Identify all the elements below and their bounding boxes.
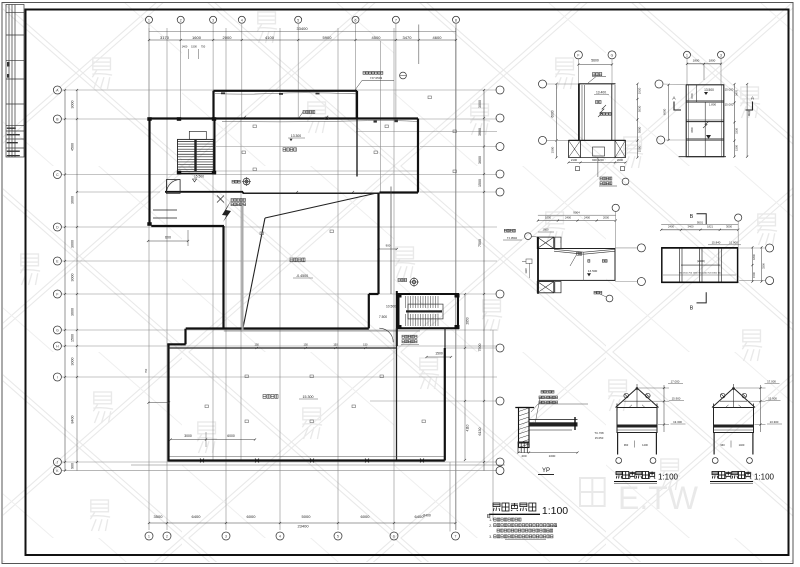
- svg-text:1500: 1500: [478, 179, 482, 187]
- svg-text:750: 750: [144, 368, 148, 373]
- svg-text:1:100: 1:100: [754, 473, 775, 482]
- svg-text:2: 2: [166, 535, 168, 539]
- svg-text:3300: 3300: [761, 263, 765, 269]
- d2 top stems: [686, 59, 688, 86]
- svg-text:1800: 1800: [693, 58, 700, 62]
- svg-text:1500: 1500: [435, 352, 443, 356]
- svg-text:4: 4: [279, 535, 281, 539]
- svg-text:3600: 3600: [71, 308, 75, 316]
- d2 top dim: [687, 63, 721, 65]
- svg-text:23400: 23400: [297, 523, 309, 528]
- wall: step at y=328.7: [186, 327, 369, 329]
- right axis circles: [496, 86, 504, 475]
- lower wing bottom wall: [169, 459, 445, 461]
- svg-text:6: 6: [393, 535, 395, 539]
- wing inner line y=456.5: [170, 456, 445, 458]
- svg-text:1400: 1400: [739, 443, 745, 447]
- svg-text:11.900: 11.900: [729, 241, 738, 245]
- leader text below right stair: [402, 335, 417, 338]
- svg-text:1500: 1500: [734, 145, 738, 151]
- wall: lower wing west x=168.5: [167, 344, 169, 461]
- line below trapezoid bottom: [224, 330, 420, 332]
- grid vertical lines: [149, 24, 456, 530]
- svg-text:1400: 1400: [182, 45, 188, 49]
- right dimension chain: [478, 89, 485, 471]
- svg-text:2400: 2400: [584, 216, 590, 220]
- svg-text:7.500: 7.500: [379, 315, 387, 319]
- right stair block walls: [399, 294, 459, 328]
- svg-text:6400: 6400: [192, 514, 202, 519]
- svg-text:15.050: 15.050: [595, 436, 604, 440]
- svg-text:13.300: 13.300: [770, 420, 779, 424]
- d3 left leader: [504, 229, 515, 232]
- d3 body: [538, 249, 615, 281]
- svg-text:900: 900: [71, 463, 75, 469]
- svg-text:3030: 3030: [638, 105, 642, 112]
- svg-text:YP: YP: [542, 468, 550, 474]
- svg-text:900 2200: 900 2200: [592, 158, 604, 162]
- svg-text:6000: 6000: [663, 108, 667, 115]
- right stair middle stringer: [406, 310, 442, 312]
- svg-text:6000: 6000: [551, 110, 555, 117]
- wall jog y=294: [369, 293, 379, 295]
- svg-text:1800: 1800: [752, 254, 756, 260]
- right stair corner columns: [397, 294, 460, 330]
- svg-text:6000: 6000: [247, 514, 257, 519]
- d3 top right circle: [612, 204, 619, 211]
- svg-text:8: 8: [455, 18, 457, 22]
- svg-text:960: 960: [624, 443, 629, 447]
- svg-text:2,3/54: 2,3/54: [549, 524, 558, 528]
- svg-text:4110: 4110: [466, 424, 470, 431]
- svg-text:600: 600: [165, 236, 171, 240]
- svg-text:G: G: [56, 329, 59, 333]
- exhibition hall slanted walls: [243, 218, 265, 328]
- svg-text:3000: 3000: [478, 100, 482, 108]
- svg-text:15.840: 15.840: [712, 241, 721, 245]
- svg-text:1000: 1000: [549, 454, 556, 458]
- title block table: [6, 5, 24, 158]
- lower wing texts: [263, 395, 278, 399]
- svg-text:7: 7: [455, 535, 457, 539]
- svg-text:2.: 2.: [489, 524, 492, 528]
- svg-text:3000: 3000: [638, 126, 642, 133]
- window marks on bottom wall: [200, 459, 424, 463]
- svg-text:2850: 2850: [466, 317, 470, 324]
- wall: step y=344.3: [167, 343, 185, 345]
- svg-text:J: J: [57, 461, 59, 465]
- d4 right dim chains: [751, 247, 753, 281]
- top dimension chain: [148, 25, 457, 65]
- svg-text:3470: 3470: [734, 90, 738, 96]
- d1 bottom dims: [569, 162, 626, 164]
- svg-text:3400: 3400: [688, 225, 694, 229]
- ticks on wing bottom wall: [296, 191, 298, 193]
- roof wavy line below edge: [215, 93, 356, 94]
- svg-text:1500: 1500: [191, 45, 197, 49]
- wall: upper roof top edge: [214, 90, 358, 92]
- gable A-A label: [616, 472, 622, 479]
- window X mark: [217, 196, 224, 203]
- svg-text:1500: 1500: [691, 93, 694, 99]
- svg-text:1800: 1800: [709, 58, 716, 62]
- svg-text:3600: 3600: [71, 196, 75, 204]
- yp wall hatch: [519, 408, 530, 448]
- right stair treads: [406, 296, 444, 326]
- wall: step x=185.5: [184, 329, 186, 345]
- svg-text:15.000: 15.000: [725, 88, 734, 92]
- left dimension chain: [64, 89, 75, 472]
- drain in upper wing: [243, 178, 250, 185]
- svg-text:17.000: 17.000: [671, 380, 680, 384]
- svg-text:1500: 1500: [752, 272, 756, 278]
- svg-text:7: 7: [395, 18, 397, 22]
- svg-text:3000: 3000: [71, 358, 75, 366]
- row 348 right extension: [445, 347, 495, 349]
- svg-text:1.: 1.: [489, 518, 492, 522]
- svg-text:TC.708: TC.708: [594, 431, 604, 435]
- svg-text:1: 1: [686, 53, 688, 57]
- second left dim chain: [76, 89, 78, 471]
- svg-text:15.500: 15.500: [194, 175, 204, 179]
- d3 bottom-left X square: [537, 282, 554, 293]
- scattered interior marks lower wing: [205, 375, 425, 423]
- svg-text:3000: 3000: [184, 434, 192, 438]
- hall text 展厅上空: [290, 258, 305, 262]
- svg-text:150: 150: [304, 343, 309, 347]
- d1 top dim: [578, 64, 612, 66]
- d2 top axis circles: [684, 51, 691, 58]
- ticks above long wall: [244, 116, 246, 118]
- svg-text:3: 3: [225, 535, 227, 539]
- svg-text:3470: 3470: [403, 35, 413, 40]
- svg-text:1920: 1920: [638, 87, 642, 94]
- yp wall cap: [515, 407, 534, 409]
- title block text marks: [7, 62, 20, 156]
- yp leader notes: [541, 391, 554, 394]
- svg-text:7500: 7500: [478, 344, 482, 352]
- d3 roof V lines: [554, 249, 615, 254]
- drawing arrows (drainage): [222, 199, 232, 222]
- d2 right dim chains: [734, 84, 736, 157]
- svg-text:1000: 1000: [545, 216, 551, 220]
- svg-text:4100: 4100: [265, 35, 275, 40]
- yp wall feet: [518, 442, 530, 444]
- svg-text:3330: 3330: [734, 128, 738, 134]
- d1 label R602: [593, 73, 602, 76]
- svg-text:1500: 1500: [638, 145, 642, 152]
- bottom axis circles: [145, 532, 460, 540]
- upper wing interior marks: [242, 96, 456, 235]
- svg-text:10.500: 10.500: [386, 305, 396, 309]
- svg-text:1: 1: [148, 18, 150, 22]
- svg-text:-0.4500: -0.4500: [296, 274, 308, 278]
- svg-text:2: 2: [180, 18, 182, 22]
- svg-text:15.900: 15.900: [768, 397, 777, 401]
- wall: upper wing long edge: [150, 117, 419, 119]
- grey axis overlay line: [242, 205, 244, 330]
- wall connect x=445: [444, 328, 446, 348]
- d2 body: [679, 85, 726, 157]
- svg-text:750 1510 750 1080 750 1440 720: 750 1510 750 1080 750 1440 720 1800 750: [679, 272, 722, 274]
- svg-text:3: 3: [720, 53, 722, 57]
- svg-text:3000: 3000: [71, 274, 75, 282]
- svg-text:B: B: [690, 214, 694, 220]
- top axis circles: [146, 16, 460, 23]
- svg-text:750: 750: [201, 45, 206, 49]
- stair lower landing walls: [153, 180, 180, 218]
- svg-text:5000: 5000: [302, 514, 312, 519]
- d1 body: [578, 84, 615, 141]
- svg-text:F: F: [577, 53, 579, 57]
- svg-text:3000: 3000: [726, 225, 732, 229]
- svg-text:3600: 3600: [478, 156, 482, 164]
- dim 600 near step: [148, 240, 188, 242]
- d4 top-right circle: [735, 214, 742, 221]
- svg-text:17.000: 17.000: [767, 380, 776, 384]
- svg-text:6000: 6000: [227, 434, 235, 438]
- svg-text:2100: 2100: [571, 158, 578, 162]
- d1 axis circles: [574, 51, 582, 59]
- gable B-B label: [712, 472, 718, 479]
- svg-text:1600: 1600: [192, 35, 202, 40]
- d3 top dims: [538, 220, 616, 222]
- svg-text:5900: 5900: [323, 35, 333, 40]
- small dim at wing west: [149, 402, 170, 404]
- svg-text:I: I: [57, 376, 58, 380]
- svg-text:1: 1: [148, 535, 150, 539]
- d1 right dims: [637, 84, 639, 158]
- svg-text:3600: 3600: [478, 128, 482, 136]
- wall: mid step y=226: [151, 225, 224, 227]
- svg-text:4600: 4600: [433, 35, 443, 40]
- svg-text:15.300: 15.300: [303, 395, 314, 399]
- stair block upper-left: walls: [148, 119, 150, 226]
- svg-text:13.500: 13.500: [588, 269, 598, 273]
- yp dims below: [519, 452, 578, 454]
- dim chain x=465 right of lower wing: [464, 293, 470, 461]
- svg-text:5: 5: [297, 18, 299, 22]
- svg-text:4: 4: [241, 18, 243, 22]
- lower wing east wall: [444, 348, 446, 461]
- leader for roof drain note: [299, 112, 303, 118]
- svg-text:3000: 3000: [71, 101, 75, 109]
- svg-text:33400: 33400: [296, 26, 308, 31]
- ticks on lower wing top wall: [255, 343, 368, 349]
- left axis circles: [53, 86, 61, 475]
- svg-text:15.000: 15.000: [725, 103, 734, 107]
- interior dims lower wing: [171, 439, 255, 441]
- d1 footer: [569, 140, 626, 157]
- svg-text:5600: 5600: [591, 59, 599, 63]
- svg-text:G: G: [611, 53, 614, 57]
- d2 left dim chain: [668, 85, 670, 140]
- wall: x=396.5 interior vertical: [396, 328, 398, 461]
- leader at roof top right: [355, 81, 394, 91]
- d1 left dims: [556, 84, 558, 158]
- svg-text:3000: 3000: [71, 240, 75, 248]
- thin line under long wall: [222, 121, 418, 122]
- wall: trapezoid left x=223.5: [222, 226, 224, 329]
- svg-text:2000: 2000: [617, 158, 624, 162]
- svg-text:(2400): (2400): [697, 259, 705, 263]
- d2 left circles: [655, 80, 663, 88]
- svg-text:13.300: 13.300: [291, 134, 301, 138]
- svg-text:2000: 2000: [603, 216, 609, 220]
- svg-text:1500: 1500: [551, 146, 555, 153]
- bottom dimension chain: [148, 514, 457, 528]
- svg-text:3300: 3300: [691, 127, 694, 133]
- svg-text:15.900: 15.900: [672, 397, 681, 401]
- wall: x=379.5 vertical: [377, 193, 379, 295]
- yp gutter beam: [529, 417, 578, 430]
- wall x=357 into wing: [356, 119, 358, 177]
- svg-text:B: B: [690, 306, 694, 312]
- svg-text:150: 150: [333, 343, 338, 347]
- svg-text:9004: 9004: [573, 211, 580, 215]
- svg-text:13.400: 13.400: [596, 91, 606, 95]
- svg-text:3: 3: [212, 18, 214, 22]
- svg-text:1:100: 1:100: [658, 473, 679, 482]
- svg-text:F: F: [56, 293, 58, 297]
- right circle row 348: [496, 344, 504, 352]
- svg-text:4500: 4500: [71, 143, 75, 151]
- svg-text:TJ.0502: TJ.0502: [507, 236, 518, 240]
- svg-text:1400: 1400: [642, 443, 648, 447]
- column squares stair block: [147, 117, 216, 226]
- dim 900 below wing: [379, 248, 397, 250]
- d4 top dims: [661, 229, 738, 231]
- svg-text:1800: 1800: [543, 228, 549, 232]
- svg-text:9000: 9000: [747, 110, 751, 116]
- svg-text:5: 5: [337, 535, 339, 539]
- svg-text:3.: 3.: [489, 535, 492, 539]
- interior walls upper wing bottom: [165, 191, 243, 193]
- svg-text:4500: 4500: [372, 35, 382, 40]
- svg-text:3170: 3170: [160, 35, 170, 40]
- svg-text:13.500: 13.500: [704, 88, 714, 92]
- lower wing top wall: [169, 347, 397, 349]
- svg-text:2400: 2400: [668, 225, 674, 229]
- svg-text:6000: 6000: [361, 514, 371, 519]
- svg-text:9501: 9501: [697, 220, 704, 224]
- drain symbol near right stair: [410, 278, 418, 286]
- svg-text:6: 6: [355, 18, 357, 22]
- svg-text:1821: 1821: [707, 225, 713, 229]
- notes under title: [488, 515, 490, 518]
- svg-text:960: 960: [720, 443, 725, 447]
- svg-text:1500: 1500: [71, 334, 75, 342]
- svg-text:1.800: 1.800: [709, 103, 717, 107]
- svg-text:150: 150: [255, 343, 260, 347]
- svg-text:E.TW: E.TW: [618, 480, 699, 516]
- large watermark text: [580, 478, 605, 506]
- d3 right circles: [637, 244, 645, 252]
- d3 top-left X square: [537, 237, 554, 248]
- d3 bottom leader: [594, 291, 602, 294]
- grid horizontal lines: [62, 41, 505, 471]
- svg-text:150: 150: [363, 343, 368, 347]
- svg-text:6130: 6130: [478, 428, 482, 436]
- wall: right wing east: [417, 119, 419, 193]
- svg-text:2000: 2000: [223, 35, 233, 40]
- stair upper-left: cage and treads: [178, 131, 214, 171]
- wall: right wing bottom: [380, 191, 419, 193]
- grid vertical x=493: [492, 330, 494, 520]
- svg-text:7J7.0503: 7J7.0503: [370, 76, 383, 80]
- d4 right circles: [766, 244, 774, 252]
- svg-text:2400: 2400: [565, 216, 571, 220]
- d3 centre marks: [577, 252, 582, 255]
- svg-text:8400: 8400: [423, 514, 431, 518]
- svg-text:1118: 1118: [525, 268, 528, 274]
- wall: upper roof sides: [212, 91, 214, 119]
- d1 leader bottom: [597, 158, 599, 178]
- window label blobs below wall: [231, 199, 246, 202]
- svg-text:8400: 8400: [71, 416, 75, 424]
- corridor line x=391: [390, 187, 392, 295]
- stair upper-left: middle stringer: [194, 140, 196, 172]
- svg-text:7500: 7500: [478, 239, 482, 247]
- wall x=368.8: [368, 294, 370, 328]
- svg-text:13.300: 13.300: [673, 420, 682, 424]
- svg-text:900: 900: [386, 243, 391, 247]
- d4 body: [661, 247, 738, 249]
- dim 1500 under stair: [427, 356, 452, 358]
- svg-text:3500: 3500: [154, 514, 164, 519]
- svg-text:200: 200: [521, 454, 526, 458]
- svg-text:2/38: 2/38: [545, 529, 551, 533]
- svg-text:1:100: 1:100: [542, 505, 568, 517]
- wall left of right stair: [396, 291, 398, 346]
